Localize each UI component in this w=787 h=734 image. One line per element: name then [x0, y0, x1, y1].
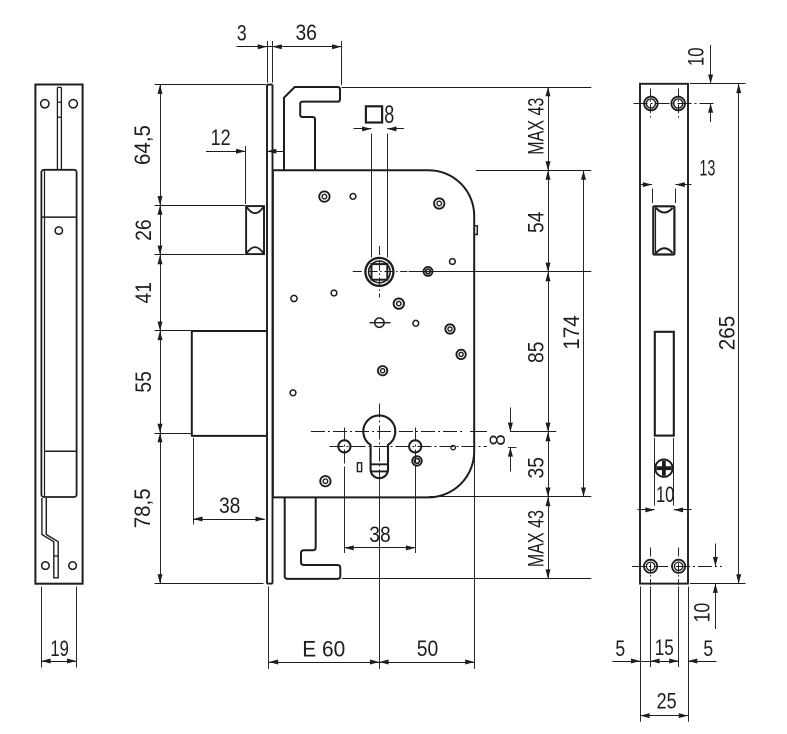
right extension lines — [342, 88, 592, 579]
hole C4 — [456, 350, 465, 359]
svg-text:5: 5 — [615, 636, 625, 661]
follower square 8mm — [372, 264, 388, 280]
svg-text:19: 19 — [50, 636, 69, 661]
dimension 54 — [524, 212, 549, 234]
side tab on body edge — [474, 226, 477, 235]
dimension 38 screws — [344, 467, 415, 553]
dimension MAX 43 top — [524, 98, 549, 155]
dimension 19 — [41, 587, 76, 668]
left view latch tail rod — [57, 87, 61, 169]
svg-text:38: 38 — [219, 493, 241, 518]
bottom hook bracket — [285, 497, 341, 579]
follower inner circle — [369, 261, 391, 283]
svg-text:55: 55 — [131, 371, 156, 393]
svg-text:8: 8 — [485, 434, 510, 446]
svg-text:MAX 43: MAX 43 — [524, 510, 549, 567]
svg-text:174: 174 — [559, 315, 584, 350]
svg-text:41: 41 — [131, 282, 156, 304]
left view small hole — [55, 227, 62, 234]
svg-text:3: 3 — [237, 20, 247, 45]
left dimension chain line — [160, 85, 162, 584]
hole B5 — [394, 298, 404, 308]
right view top screw left — [644, 97, 658, 111]
top screws centerlines — [634, 89, 717, 119]
svg-text:78,5: 78,5 — [130, 488, 155, 528]
dimension 85 — [524, 342, 549, 364]
svg-text:8: 8 — [384, 101, 394, 129]
bottom screws centerlines — [632, 548, 722, 586]
left extension lines — [155, 85, 267, 584]
left view top screw hole left — [41, 100, 49, 108]
svg-text:54: 54 — [524, 212, 549, 234]
dimension MAX 43 bottom — [524, 510, 549, 567]
svg-text:38: 38 — [369, 522, 391, 547]
lock body outline — [273, 170, 474, 497]
follower centerlines — [353, 246, 408, 298]
dimension 5 15 5 — [613, 635, 717, 664]
dimension 265 — [714, 84, 741, 584]
deadbolt thrown — [192, 331, 267, 436]
bottom extension lines — [641, 587, 689, 722]
svg-text:265: 265 — [714, 316, 739, 351]
svg-text:13: 13 — [699, 156, 715, 181]
dimension 8 vertical — [485, 408, 513, 472]
dimension 3 and 36 — [237, 20, 342, 85]
right chain arrows — [546, 87, 551, 579]
svg-text:36: 36 — [295, 20, 317, 45]
svg-text:E 60: E 60 — [302, 636, 345, 661]
right dimension chain line — [548, 87, 550, 579]
screw centerline horizontal — [330, 447, 517, 448]
dimension 12 — [206, 125, 284, 204]
left view divider upper — [42, 216, 77, 218]
right view bottom screw right — [672, 560, 685, 573]
left view crank lever — [42, 498, 58, 578]
hole D1 — [451, 445, 455, 449]
cylinder fixing screw right — [409, 428, 421, 468]
hole B4 — [450, 259, 456, 265]
small slot D4 — [357, 463, 361, 472]
left view outer case plate — [35, 85, 82, 584]
dimension 55 — [131, 371, 156, 393]
svg-text:5: 5 — [703, 636, 713, 661]
svg-text:85: 85 — [524, 342, 549, 364]
right view top screw right — [671, 97, 685, 111]
hole B1 — [291, 295, 297, 301]
hole C3 — [445, 324, 454, 333]
dimension 38 deadbolt — [193, 438, 265, 525]
hole B2 — [331, 290, 337, 296]
slot extension lines — [653, 189, 676, 506]
dimension 26 — [131, 219, 156, 241]
dimension 25 — [640, 688, 688, 718]
hole C6 — [290, 390, 296, 396]
slotted hole C1 — [370, 318, 391, 327]
follower outer circle — [365, 258, 393, 286]
right view bottom screw left — [644, 560, 657, 573]
svg-text:MAX 43: MAX 43 — [524, 98, 549, 155]
hole A2 — [350, 194, 356, 200]
svg-text:10: 10 — [656, 482, 675, 507]
hole B3 — [424, 267, 433, 276]
svg-text:25: 25 — [657, 688, 677, 713]
svg-text:10: 10 — [683, 48, 708, 67]
left view bottom screw hole right — [69, 562, 77, 570]
left view bottom screw hole left — [42, 562, 50, 570]
svg-text:64,5: 64,5 — [130, 125, 155, 165]
top hook bracket — [284, 87, 340, 170]
hole D2 — [412, 456, 422, 466]
phillips screw — [655, 460, 672, 477]
dimension 64,5 — [130, 125, 155, 165]
dimension 10 top right — [683, 45, 745, 122]
dimension 174 — [559, 171, 586, 497]
left view inner box double edge — [44, 171, 46, 497]
left view top screw hole right — [69, 100, 77, 108]
cylinder centerlines — [311, 404, 462, 498]
hole A1 — [319, 191, 329, 201]
dimension 10 bottom right — [690, 544, 746, 630]
dimension 10 slot width — [638, 482, 692, 512]
svg-text:15: 15 — [655, 635, 674, 660]
svg-text:35: 35 — [524, 457, 549, 479]
svg-text:50: 50 — [417, 636, 439, 661]
latch bolt side profile — [246, 206, 264, 254]
hole C5 — [378, 366, 387, 375]
left chain arrows — [158, 85, 163, 584]
hole A3 — [434, 198, 444, 208]
hole D3 — [320, 476, 330, 486]
euro profile cylinder — [363, 415, 395, 478]
lower slot window — [655, 332, 674, 436]
dimension E60 and 50 — [269, 429, 475, 669]
cylinder fixing screw left — [338, 428, 350, 468]
left view divider lower — [44, 450, 76, 452]
svg-text:10: 10 — [690, 603, 715, 623]
hole C2 — [413, 320, 419, 326]
faceplate strip front edge — [267, 85, 273, 584]
roller bolt cutout — [653, 206, 674, 254]
dimension 41 — [131, 282, 156, 304]
svg-text:12: 12 — [211, 125, 231, 150]
svg-text:26: 26 — [131, 219, 156, 241]
right view faceplate — [640, 84, 688, 584]
dimension 13 — [641, 156, 716, 188]
dimension 78,5 — [130, 488, 155, 528]
left view inner mechanism box — [41, 170, 76, 497]
dimension 35 — [524, 457, 549, 479]
dimension square 8 — [354, 101, 405, 257]
